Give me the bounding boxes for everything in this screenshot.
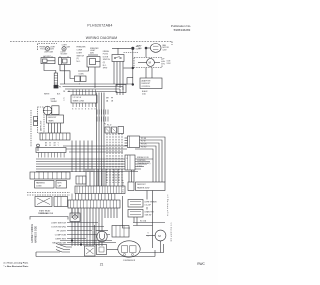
terminal strip TS2 [30, 172, 70, 179]
wire socket S3 down [78, 67, 89, 71]
small connector box [76, 176, 86, 184]
svg-text:S: S [148, 233, 149, 235]
svg-text:# = Timer-sensing Parts: # = Timer-sensing Parts [4, 262, 29, 265]
svg-text:SWITCH: SWITCH [103, 59, 111, 61]
svg-text:COMP: COMP [77, 50, 83, 52]
junction node [132, 47, 135, 50]
wire junction riser [132, 48, 134, 84]
wire dashed separators [27, 192, 70, 194]
svg-text:5 TO 1: 5 TO 1 [137, 166, 142, 168]
lamp socket housing S2 [59, 58, 71, 65]
buzzer BZ1 solenoid [96, 230, 109, 232]
svg-text:WIRING DIAGRAM: WIRING DIAGRAM [86, 36, 118, 40]
heater row HR1 [128, 200, 143, 208]
svg-text:FOOD: FOOD [40, 49, 46, 51]
thermostat body [52, 106, 59, 115]
svg-text:M: M [149, 61, 151, 65]
lamp L2 fresh food light [62, 47, 66, 51]
inline connector J1 [54, 73, 57, 85]
connector small NB2 [128, 182, 134, 191]
heater row HR2 [128, 210, 143, 218]
svg-text:DOOR: DOOR [103, 56, 109, 58]
svg-text:CONN: CONN [79, 73, 85, 75]
wire to fan circuit [112, 47, 131, 49]
wire crossing verticals [71, 141, 73, 173]
wire verticals into TS3 [85, 169, 87, 186]
svg-text:FRESH: FRESH [103, 51, 110, 53]
compressor COMP1 [118, 241, 140, 257]
svg-text:P3 OR: P3 OR [141, 144, 147, 146]
svg-text:B: B [88, 109, 89, 111]
wire socket S2 down [60, 65, 75, 79]
svg-text:TIMER: TIMER [48, 121, 54, 123]
relay RL1 [35, 197, 52, 207]
svg-text:1 2 3 4 5 6: 1 2 3 4 5 6 [73, 97, 82, 99]
coil box CL1 [70, 213, 80, 222]
wire fan leads down [145, 48, 147, 58]
svg-text:P1 BK: P1 BK [141, 138, 147, 140]
svg-text:FOOD: FOOD [103, 54, 109, 56]
svg-text:N.O.: N.O. [77, 61, 81, 63]
condenser fan motor M3 [155, 230, 166, 241]
wire compressor top feeds [133, 222, 165, 224]
lamp socket housing S3 [87, 57, 100, 68]
svg-text:DOOR SW (FZ): DOOR SW (FZ) [51, 226, 66, 228]
defrost limit dashed enclosure [38, 107, 45, 133]
svg-text:B: B [82, 109, 83, 111]
svg-text:GDE 4W: GDE 4W [145, 214, 152, 216]
svg-text:CABINET WIRING: CABINET WIRING [31, 224, 34, 243]
svg-text:HARNESS: HARNESS [36, 181, 45, 184]
svg-text:POST PLUG CONN: POST PLUG CONN [38, 213, 54, 215]
svg-text:COMP RUN: COMP RUN [55, 234, 67, 236]
terminal strip TB1 [72, 90, 74, 96]
condenser fan motor M2 in dashed enclosure [134, 58, 162, 68]
wire dashed bracket light area [38, 44, 58, 51]
svg-text:(2): (2) [77, 58, 80, 60]
svg-text:DEFROST: DEFROST [142, 83, 151, 85]
svg-text:LIGHT: LIGHT [77, 52, 83, 54]
wire left bracket [123, 196, 131, 228]
connector comb pins [96, 110, 98, 115]
svg-text:LIGHT 40W: LIGHT 40W [44, 51, 53, 53]
svg-text:FF LIGHT: FF LIGHT [57, 230, 67, 232]
svg-text:B: B [95, 109, 96, 111]
wire dashed top border [10, 41, 172, 43]
svg-text:DEFR LIMIT: DEFR LIMIT [41, 120, 43, 131]
svg-text:RWC: RWC [197, 262, 205, 266]
svg-text:(THERMOSTAT): (THERMOSTAT) [137, 162, 151, 165]
svg-text:SOCKET: SOCKET [61, 54, 68, 56]
svg-text:COMPRESSOR: COMPRESSOR [123, 260, 136, 262]
svg-text:P5: P5 [104, 124, 106, 126]
wire center dashed risers [106, 134, 108, 184]
wire bottom risers [71, 222, 73, 247]
svg-text:MTR: MTR [58, 182, 63, 184]
wire DH1 to HR1 [146, 191, 148, 200]
svg-text:B: B [75, 109, 76, 111]
svg-text:CONTROL: CONTROL [142, 86, 151, 88]
svg-text:21: 21 [100, 263, 104, 267]
svg-text:B: B [91, 109, 92, 111]
svg-text:(2): (2) [103, 62, 106, 64]
overload OL1 [54, 197, 68, 207]
svg-text:DEFR HTR: DEFR HTR [55, 238, 66, 240]
defrost heater box DH1 [136, 182, 166, 191]
svg-text:THERM: THERM [51, 101, 58, 103]
connector strip CR2 [36, 148, 66, 153]
screw terminal [37, 144, 40, 147]
svg-text:ADAPTIVE: ADAPTIVE [142, 79, 152, 82]
svg-text:L55-25F: L55-25F [145, 204, 151, 206]
connector block CR1 [40, 133, 70, 140]
svg-text:DEFR THERMO: DEFR THERMO [145, 202, 158, 204]
cold control thermostat CC1 [112, 55, 124, 62]
wire TS3 to TS4 links [71, 194, 73, 201]
wire mid feeders [63, 145, 127, 147]
svg-text:NEUTRAL WH: NEUTRAL WH [52, 241, 66, 244]
defrost timer DT1 [47, 115, 64, 123]
svg-text:CONN: CONN [36, 186, 42, 188]
connector block CB2 [128, 136, 140, 148]
svg-text:5995346283: 5995346283 [174, 28, 191, 32]
svg-text:SWITCH: SWITCH [77, 55, 85, 57]
svg-text:40W: 40W [50, 49, 54, 51]
svg-text:B: B [72, 109, 73, 111]
wire bottom routing [60, 240, 112, 242]
thermostat connector NB1 [125, 155, 135, 170]
svg-text:P5 J2: P5 J2 [107, 125, 111, 127]
svg-text:P4 RD: P4 RD [141, 147, 147, 149]
svg-text:CONTROL: CONTROL [137, 160, 146, 162]
wire motor leads [160, 241, 162, 253]
wire dashed left riser [30, 110, 32, 147]
svg-text:N.O.: N.O. [103, 65, 107, 67]
auxiliary contact blocks [34, 117, 38, 121]
svg-text:P2 W: P2 W [141, 141, 146, 143]
wire bus drops [128, 172, 130, 183]
wire harness bus [60, 83, 133, 85]
wire bundle down-center [96, 93, 98, 187]
junction dots [71, 240, 73, 242]
svg-text:DEFROST: DEFROST [137, 184, 146, 186]
svg-text:LIGHT SWITCH: LIGHT SWITCH [51, 222, 66, 224]
run capacitor box [112, 226, 129, 238]
wire lower harness bus [36, 158, 153, 160]
wire bus corners down [122, 87, 124, 96]
svg-text:40W: 40W [66, 47, 70, 49]
svg-text:DEFROST: DEFROST [48, 117, 57, 119]
svg-text:B: B [79, 109, 80, 111]
svg-text:HARNESS SIDE: HARNESS SIDE [34, 225, 37, 243]
wire drops below TS4 [71, 208, 73, 218]
svg-text:TIMER CONN: TIMER CONN [73, 101, 85, 103]
svg-text:B: B [85, 109, 86, 111]
svg-text:DRAIN HTR: DRAIN HTR [145, 211, 155, 214]
start device box A [85, 246, 96, 256]
wire control leads [113, 62, 115, 85]
wire heater row drops [133, 217, 135, 223]
wire timer pins [48, 123, 50, 133]
svg-text:FRESH FOOD: FRESH FOOD [137, 157, 149, 159]
svg-text:FF: FF [111, 98, 113, 100]
wire nested corner drops [140, 137, 166, 182]
wire plug bracket [30, 217, 68, 220]
svg-text:PLHS267ZAB4: PLHS267ZAB4 [87, 24, 112, 28]
wire junction fan-out [56, 244, 72, 248]
svg-text:HEATER 450W: HEATER 450W [137, 186, 150, 189]
adaptive defrost control box ADC [140, 78, 162, 89]
lamp L1 fresh food light [45, 47, 49, 51]
terminal strip TS3 [75, 186, 125, 194]
defrost thermostat lamp symbol [43, 106, 52, 115]
ptc device box B [97, 245, 107, 255]
wire socket S1 to connector [44, 64, 56, 73]
wire dashed to motor [124, 52, 139, 54]
svg-text:FREEZER: FREEZER [77, 47, 86, 49]
relay text boxes [35, 181, 55, 189]
svg-text:60W: 60W [90, 53, 94, 55]
svg-text:* = Non-Illustrated Parts: * = Non-Illustrated Parts [4, 265, 30, 268]
svg-text:WHITE: WHITE [44, 94, 50, 96]
terminal strip TS4 [68, 200, 120, 208]
